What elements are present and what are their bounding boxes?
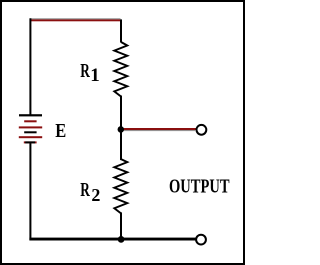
resistor R1 [114, 42, 127, 97]
wire middle vertical (R1 bottom through node to R2 top) [120, 96, 122, 161]
terminal output top circle [197, 125, 207, 135]
battery E plate 1 long (+) [19, 114, 42, 116]
label R1 [80, 60, 90, 82]
node junction dot at bottom wire [118, 236, 125, 243]
node junction dot at R1/R2 tap [118, 126, 125, 133]
label R2 [80, 179, 90, 201]
wire top (E+ to R1 top), red [31, 19, 121, 21]
wire tap black fringe [123, 130, 195, 131]
wire middle vertical top stub (top wire to R1) [120, 19, 122, 42]
wire top (E+ to R1 top), black fringe [30, 18, 121, 19]
svg-text:R: R [80, 60, 90, 82]
battery E plate 6 short (-) [24, 141, 37, 143]
battery E plate 3 long [19, 126, 42, 128]
terminal output bottom circle [196, 235, 206, 245]
wire left vertical (battery - down to bottom wire) [29, 143, 31, 240]
svg-text:1: 1 [90, 65, 100, 86]
svg-text:OUTPUT: OUTPUT [169, 175, 230, 197]
label E [55, 120, 66, 142]
resistor R2 [114, 159, 127, 213]
battery E plate 4 short [24, 131, 36, 133]
battery E plate 5 long [19, 136, 42, 138]
wire middle vertical bottom (R2 to bottom wire) [120, 212, 122, 239]
wire tap (node to output terminal), red [122, 128, 196, 130]
battery E plate 2 short [24, 120, 36, 122]
svg-text:E: E [55, 120, 66, 142]
label OUTPUT [169, 175, 230, 197]
battery E plate 6 black center [25, 141, 35, 143]
svg-text:2: 2 [91, 185, 100, 205]
svg-text:R: R [80, 179, 90, 201]
wire bottom (battery - to bottom terminal) [29, 238, 195, 241]
wire left vertical (top wire down to battery +) [29, 18, 31, 115]
